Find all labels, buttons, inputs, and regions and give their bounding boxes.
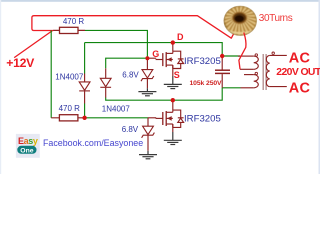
zener Z1 pin top [146,58,148,69]
svg-text:1N4007: 1N4007 [102,104,131,113]
wire D4 top to D1 line [84,43,86,74]
transformer core [263,54,266,90]
zener Z1 6.8V [141,70,154,82]
resistor R1 pins [53,29,85,31]
diode D3 1N4007 [100,78,111,87]
transformer W2 polarity dot [255,72,257,74]
wire Q1 source [172,65,174,76]
svg-text:IRF3205: IRF3205 [184,56,221,67]
ground for Z1 [138,88,156,96]
Easy One logo [16,134,40,158]
transformer primary W1 top lead [238,55,254,57]
transformer secondary polarity dot [272,52,274,54]
svg-text:Facebook.com/Easyonee: Facebook.com/Easyonee [43,138,143,148]
resistor R2 470R [59,115,78,121]
transistor Q2 IRF3205 [156,110,184,127]
ground for Z2 [139,151,157,159]
wire Q2 source [172,124,174,132]
svg-text:+12V: +12V [6,56,35,70]
junction R2/D4/gate2 node [82,116,86,120]
wire gate2 lead [148,117,156,119]
wire gate1 node left to D3 [106,58,148,68]
capacitor C1 pin top [221,56,223,70]
zener Z2 pin top [147,118,149,126]
junction cap top [220,54,224,58]
transformer primary W1 bottom lead [240,68,254,70]
transformer primary W2 coil [254,75,259,88]
resistor R1 470R [60,27,79,33]
transformer secondary bottom lead [270,86,287,88]
svg-text:AC: AC [289,50,311,66]
transformer W1 polarity dot [255,54,257,56]
wire toroid right lead to center tap [239,33,246,70]
wire D1 drain line [85,43,223,56]
wire +12V diagonal [14,31,52,58]
svg-text:Easy: Easy [18,136,38,146]
wire +12V rail down to R2 [50,30,52,117]
transformer secondary coil [266,55,269,86]
svg-text:D: D [177,32,184,42]
svg-text:470 R: 470 R [59,104,81,113]
wire Q1 drain [172,43,174,52]
diode D4 1N4007 [79,82,90,91]
wire cap top to transformer [222,55,240,57]
zener Z2 pin bottom [147,135,149,150]
svg-text:AC: AC [289,81,311,97]
transformer primary W1 coil [254,56,259,69]
diode D3 1N4007 pin top [105,68,107,78]
svg-text:470 R: 470 R [63,17,85,26]
page top edge [0,0,320,2]
diode D4 pin bottom [84,91,86,103]
svg-text:S: S [174,70,180,80]
transformer secondary top lead [270,54,287,56]
svg-text:6.8V: 6.8V [122,71,139,80]
wire R2 to gate2 [85,117,148,119]
svg-text:1N4007: 1N4007 [55,73,84,82]
wire cap bottom to transformer [222,87,240,89]
junction gate1 node [145,56,149,60]
wire Q2 drain [172,100,174,110]
zener Z2 6.8V [142,126,155,138]
diode D3 pin bottom [105,88,107,98]
transformer primary W2 top lead [244,74,254,76]
svg-text:105k 250V: 105k 250V [190,80,223,87]
svg-text:6.8V: 6.8V [122,125,139,134]
svg-text:220V OUT: 220V OUT [276,67,320,78]
wire +12V top rail [32,16,234,39]
svg-text:G: G [152,49,159,59]
svg-text:IRF3205: IRF3205 [184,114,221,125]
wire R1 to gate node [85,30,147,58]
svg-text:30Turns: 30Turns [259,13,293,24]
wire +12V to R1 [34,30,54,32]
zener Z1 pin bottom [146,79,148,89]
ground for Q1 [164,76,182,89]
page left edge [0,0,1,174]
svg-text:One: One [20,147,33,154]
transistor Q1 IRF3205 [156,51,184,68]
capacitor C1 105k 250V [215,70,230,73]
resistor R2 pins [51,117,84,119]
diode D4 1N4007 pin top [84,74,86,82]
capacitor C1 pin bottom [221,74,223,88]
ground for Q2 [164,132,182,145]
wire D4 to R2 node [84,104,86,118]
junction Q2 drain [171,98,175,102]
wire D2 drain line [106,88,223,100]
wire gate1 node to Q1 gate [147,57,156,59]
page right edge [319,0,320,174]
junction Q1 drain [171,40,175,44]
transformer primary W2 bottom lead [241,87,254,89]
